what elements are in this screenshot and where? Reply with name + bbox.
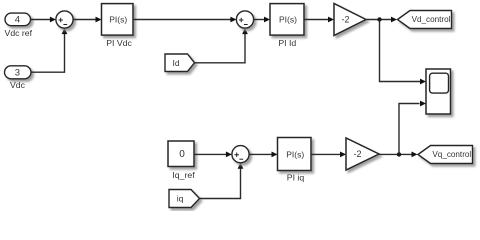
svg-text:-2: -2 [341, 15, 349, 25]
wire iq to sum3 [200, 163, 244, 199]
inport 4 (Vdc ref) [5, 13, 33, 38]
wire gain2 to Vq_control [379, 152, 418, 158]
svg-text:PI(s): PI(s) [279, 15, 297, 25]
svg-text:PI Vdc: PI Vdc [106, 38, 132, 48]
wire sum3 to PI iq [249, 152, 278, 158]
goto tag Vq_control [418, 146, 473, 164]
junction node after gain2 [397, 152, 401, 156]
gain -2 (bottom) [346, 138, 379, 170]
gain -2 (top) [334, 4, 366, 36]
from tag Id [165, 54, 195, 72]
wire constant0 to sum3 [194, 152, 232, 158]
wire PI Vdc to sum2 [133, 17, 236, 23]
PI controller PI iq [278, 138, 312, 183]
svg-text:Vdc: Vdc [10, 80, 26, 90]
svg-text:Vq_control: Vq_control [432, 150, 471, 159]
wire PI Id to gain1 [304, 17, 334, 23]
sum block 3 [232, 146, 249, 163]
svg-text:0: 0 [179, 149, 185, 160]
svg-text:Vd_control: Vd_control [412, 15, 451, 24]
svg-text:-2: -2 [353, 149, 361, 159]
PI controller PI Vdc [102, 4, 134, 48]
svg-text:4: 4 [15, 14, 20, 25]
wire PI iq to gain2 [311, 152, 346, 158]
svg-text:PI Id: PI Id [278, 38, 296, 48]
svg-text:PI iq: PI iq [287, 172, 305, 182]
PI controller PI Id [270, 4, 304, 48]
sum block 2 [236, 11, 253, 28]
svg-text:Iq_ref: Iq_ref [172, 170, 195, 180]
constant 0 (Iq_ref) [168, 141, 195, 180]
wire inport3 up to sum1 [31, 28, 67, 72]
wire Id to sum2 [195, 28, 248, 63]
svg-text:PI(s): PI(s) [109, 15, 127, 25]
sum block 1 [56, 11, 73, 28]
wire sum1 to PI Vdc [73, 17, 101, 23]
scope block [426, 69, 451, 114]
svg-text:Id: Id [172, 58, 179, 68]
from tag iq [169, 190, 200, 208]
wire junction2 up to scope input2 [399, 101, 426, 155]
wire gain1 to Vd_control [366, 17, 397, 23]
goto tag Vd_control [398, 11, 452, 29]
svg-text:PI(s): PI(s) [286, 149, 304, 159]
svg-text:iq: iq [177, 194, 184, 204]
wire inport4 to sum1 [31, 17, 56, 23]
wire junction1 down to scope input1 [380, 20, 427, 85]
junction node after gain1 [377, 17, 381, 21]
wire sum2 to PI Id [254, 17, 270, 23]
inport 3 (Vdc) [5, 66, 32, 90]
svg-text:3: 3 [15, 68, 20, 79]
svg-text:Vdc ref: Vdc ref [5, 28, 33, 38]
